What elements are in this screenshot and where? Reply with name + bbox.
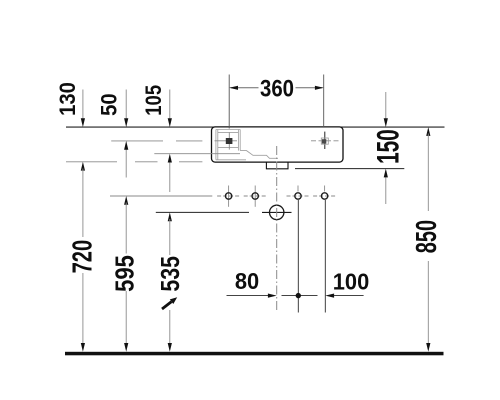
drain circle horizontal centerline	[262, 211, 292, 213]
dim 150 lower arrow	[384, 169, 388, 204]
svg-text:535: 535	[156, 256, 186, 292]
dim 850 line	[426, 127, 430, 352]
svg-text:360: 360	[260, 75, 294, 102]
basin side-profile deck box	[216, 130, 246, 160]
360 left extension vertical	[228, 75, 230, 129]
washbasin outline (front view)	[212, 127, 344, 162]
basin side-profile bowl step	[240, 151, 278, 159]
floor line	[65, 352, 444, 356]
front-view tap hole marking	[311, 132, 339, 149]
svg-text:130: 130	[56, 82, 80, 116]
drain vertical centerline	[276, 146, 278, 312]
dim 105 upper arrow	[168, 90, 172, 128]
svg-text:100: 100	[333, 268, 369, 295]
extension vertical from hole 3 down	[297, 200, 299, 313]
extension line tap-hole height (50 ref)	[111, 140, 202, 142]
svg-text:50: 50	[98, 93, 122, 116]
svg-text:850: 850	[412, 220, 443, 253]
extension line tap hole row (595 ref)	[110, 195, 212, 197]
svg-text:105: 105	[142, 85, 166, 116]
dim 50 upper arrow	[124, 90, 128, 128]
dim 80/100 line	[227, 293, 364, 298]
dim 720 line	[81, 162, 85, 352]
535 pointer arrow	[162, 297, 177, 309]
dim 105 lower arrow	[168, 154, 172, 192]
dim 50 lower arrow	[124, 141, 128, 178]
svg-text:595: 595	[111, 255, 140, 292]
tap hole circle 1	[217, 186, 240, 207]
tap hole circle 4	[313, 186, 336, 200]
360 dimension line	[229, 86, 324, 90]
dim 130 upper arrow	[81, 90, 85, 128]
extension vertical from hole 4 down	[324, 200, 326, 313]
svg-text:150: 150	[370, 129, 405, 164]
rim top reference line	[66, 126, 445, 128]
drain trap tab below basin	[266, 162, 288, 169]
drain circle	[270, 205, 284, 219]
side-profile tap hole crosshair	[215, 132, 238, 149]
svg-text:80: 80	[235, 267, 259, 294]
extension line overflow height (105 ref)	[154, 153, 240, 155]
extension line drain height (535 ref)	[156, 211, 249, 213]
dim 595 line	[124, 196, 128, 352]
extension line basin bottom (130/720 ref)	[66, 161, 202, 163]
dim 535 line	[168, 212, 172, 351]
360 right extension vertical	[323, 75, 325, 128]
dim 150 upper arrow	[384, 92, 388, 127]
tap hole circle 2	[244, 186, 267, 207]
svg-text:720: 720	[67, 240, 98, 274]
150 lower reference line	[295, 168, 404, 170]
tap hole circle 3	[287, 186, 310, 200]
